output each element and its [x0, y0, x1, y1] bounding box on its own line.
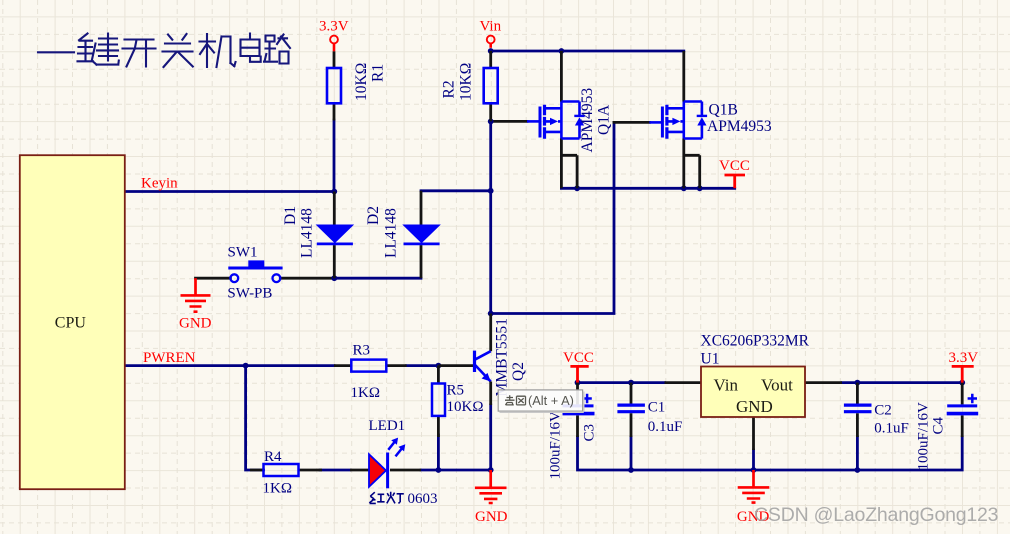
wire 3.3V rail (R1 bottom to Keyin node) — [333, 120, 336, 192]
capacitor C3 100uF/16V — [563, 383, 595, 437]
junction PWREN / R4 branch — [243, 363, 249, 369]
wire R5 bottom — [437, 435, 440, 470]
svg-text:U1: U1 — [701, 350, 720, 367]
wire Q1B gate (feedback to gate lead) — [614, 121, 649, 124]
svg-text:LL4148: LL4148 — [383, 208, 400, 258]
wire R5 node to Q2 emitter node — [438, 469, 490, 472]
svg-text:(Alt + A): (Alt + A) — [528, 393, 574, 408]
tooltip 截图(Alt + A) — [498, 390, 584, 412]
svg-text:APM4953: APM4953 — [579, 88, 596, 153]
junction Q1A drain elbow on VCC rail — [574, 185, 580, 191]
junction 3.3V / C4 top — [959, 380, 965, 386]
svg-text:GND: GND — [475, 509, 508, 525]
svg-text:D2: D2 — [365, 206, 382, 225]
svg-text:1KΩ: 1KΩ — [263, 480, 292, 496]
wire Q1A gate (R2 bottom to gate lead) — [491, 120, 527, 123]
wire D1 cathode to D2 cathode — [334, 277, 421, 280]
svg-text:C1: C1 — [648, 400, 666, 416]
junction Q1A source tap — [559, 48, 565, 54]
svg-text:Q1B: Q1B — [709, 102, 738, 119]
wire D2 anode to main net — [421, 189, 491, 192]
power port VCC (U1 input) — [563, 350, 594, 382]
resistor R5 — [432, 366, 445, 437]
svg-text:0603: 0603 — [408, 491, 438, 507]
resistor R3 — [334, 360, 407, 372]
wire gate feedback (main net to Q1B gate) — [491, 122, 614, 313]
junction VCC / C3 top — [575, 380, 581, 386]
svg-text:SW1: SW1 — [228, 245, 258, 261]
junction Q1B drain on VCC rail — [681, 185, 687, 191]
svg-text:Q2: Q2 — [510, 362, 527, 381]
svg-text:100uF/16V: 100uF/16V — [916, 402, 932, 471]
power port Vin — [480, 19, 502, 48]
junction U1 GND on bottom rail — [751, 467, 757, 473]
ground GND (U1) — [737, 470, 770, 525]
wire PWREN (CPU to R3) — [125, 364, 334, 367]
wire R3 to Q2 base node — [407, 364, 439, 367]
diode D1 LL4148 — [317, 192, 353, 279]
power port 3.3V (output) — [949, 350, 979, 382]
svg-text:VCC: VCC — [719, 158, 750, 174]
svg-text:3.3V: 3.3V — [319, 19, 349, 35]
svg-text:MMBT5551: MMBT5551 — [494, 318, 511, 396]
svg-text:C4: C4 — [931, 416, 947, 434]
svg-text:R4: R4 — [264, 449, 282, 465]
wire bottom rail (C3 to C4) — [578, 437, 963, 470]
svg-text:Vin: Vin — [714, 375, 739, 394]
junction R2 bottom / gate — [488, 119, 494, 125]
diode D2 LL4148 — [404, 191, 440, 278]
svg-text:CSDN @LaoZhangGong123: CSDN @LaoZhangGong123 — [754, 504, 998, 526]
svg-text:10KΩ: 10KΩ — [458, 63, 475, 101]
wire C2 bottom — [856, 437, 859, 470]
wire Keyin (CPU to R1/D1 node) — [125, 190, 334, 193]
svg-text:3.3V: 3.3V — [949, 350, 979, 366]
wire U1 Vout to 3.3V node — [842, 381, 962, 384]
svg-text:0.1uF: 0.1uF — [874, 421, 909, 437]
svg-text:D1: D1 — [282, 206, 299, 225]
capacitor C2 0.1uF — [844, 383, 872, 437]
power port VCC (Q1 drains) — [719, 158, 750, 189]
svg-text:10KΩ: 10KΩ — [447, 399, 484, 415]
junction Q2 base / R3 / R5 — [436, 363, 442, 369]
svg-text:R1: R1 — [370, 64, 387, 82]
svg-text:100uF/16V: 100uF/16V — [548, 411, 564, 480]
wire PWREN branch down to R4 — [246, 366, 264, 470]
junction C1 bottom — [628, 467, 634, 473]
svg-text:R3: R3 — [353, 343, 371, 359]
svg-text:LED1: LED1 — [369, 418, 406, 434]
resistor R4 — [250, 464, 322, 476]
wire VCC drain rail — [561, 187, 734, 190]
ground GND (SW1) — [179, 278, 212, 331]
wire Q2 emitter down to GND node — [489, 405, 492, 470]
wire LED1 cathode to R5 bottom node — [421, 469, 438, 472]
svg-text:PWREN: PWREN — [143, 350, 196, 366]
resistor R1 — [327, 51, 341, 120]
junction C2 top — [855, 380, 861, 386]
transistor Q2 MMBT5551 — [438, 314, 490, 406]
wire Vin top rail — [491, 50, 684, 53]
svg-text:Q1A: Q1A — [596, 104, 613, 135]
wire switch to GND — [196, 277, 231, 280]
wire VCC to U1 Vin — [578, 381, 665, 384]
junction SW1/D1/D2 cathode node — [331, 275, 337, 281]
svg-text:R2: R2 — [441, 80, 458, 98]
capacitor C4 100uF/16V — [947, 383, 979, 437]
svg-text:Keyin: Keyin — [141, 175, 178, 191]
svg-text:0.1uF: 0.1uF — [648, 419, 683, 435]
svg-text:1KΩ: 1KΩ — [351, 385, 380, 401]
svg-text:CPU: CPU — [55, 315, 87, 332]
svg-text:XC6206P332MR: XC6206P332MR — [701, 332, 810, 349]
svg-text:LL4148: LL4148 — [299, 208, 316, 258]
power port 3.3V (top) — [319, 19, 349, 52]
svg-text:APM4953: APM4953 — [707, 118, 772, 135]
svg-text:10KΩ: 10KΩ — [353, 63, 370, 101]
svg-text:Vout: Vout — [761, 375, 793, 394]
wire R4 to LED1 anode — [320, 469, 350, 472]
capacitor C1 0.1uF — [617, 383, 645, 437]
resistor R2 — [484, 51, 498, 121]
wire main vertical net (R2 bottom to Q2 collector) — [489, 121, 492, 313]
junction Q2 emitter / GND — [488, 467, 494, 473]
led LED1 — [350, 439, 421, 489]
junction C2 bottom — [855, 467, 861, 473]
title 一键开关机电路 — [38, 34, 290, 68]
svg-text:Vin: Vin — [480, 19, 502, 35]
wire switch to D1 cathode node — [280, 277, 334, 280]
junction D2 anode tap — [488, 188, 494, 194]
svg-text:SW-PB: SW-PB — [227, 286, 272, 302]
svg-text:R5: R5 — [447, 383, 465, 399]
ground GND (Q2 emitter) — [475, 470, 508, 525]
voltage regulator U1 XC6206P332MR — [665, 367, 843, 451]
switch SW1 SW-PB — [227, 245, 282, 302]
svg-text:GND: GND — [179, 315, 212, 331]
junction gate feedback tap — [488, 311, 494, 317]
wire U1 GND pin lower part — [752, 450, 755, 470]
ic CPU — [20, 155, 125, 489]
wire C1 bottom — [630, 437, 633, 470]
junction Keyin/R1/D1 — [331, 189, 337, 195]
mosfet Q1B APM4953 — [649, 51, 707, 188]
junction R5 bottom / LED cathode — [436, 467, 442, 473]
junction Q1B drain elbow on VCC rail — [697, 185, 703, 191]
junction Vin rail / R2 — [488, 48, 494, 54]
label LED1 value 红灯 0603 — [369, 491, 437, 507]
svg-text:C3: C3 — [582, 424, 598, 442]
svg-text:GND: GND — [736, 397, 773, 416]
svg-text:VCC: VCC — [563, 350, 594, 366]
svg-text:C2: C2 — [874, 402, 892, 418]
mosfet Q1A APM4953 — [527, 51, 585, 188]
junction C1 top — [628, 380, 634, 386]
